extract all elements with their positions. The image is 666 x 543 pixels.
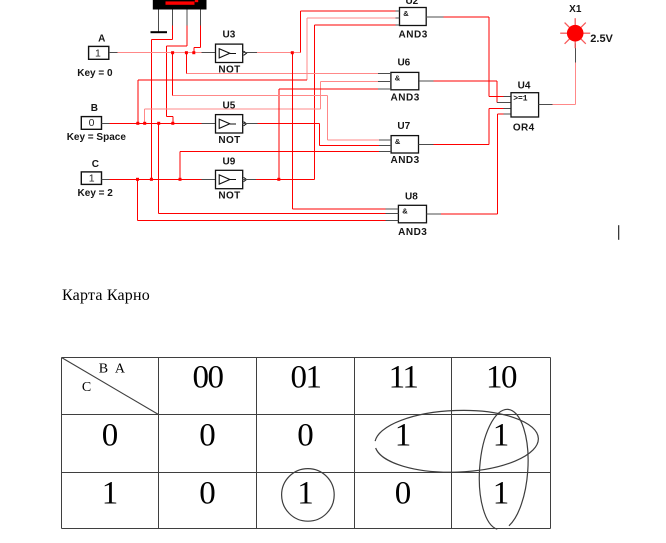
svg-text:Key = 0: Key = 0 xyxy=(77,68,113,79)
svg-text:0: 0 xyxy=(102,418,119,454)
svg-text:1: 1 xyxy=(493,418,510,454)
svg-text:U9: U9 xyxy=(223,156,236,167)
svg-text:&: & xyxy=(395,74,401,83)
svg-text:AND3: AND3 xyxy=(391,92,420,103)
svg-text:10: 10 xyxy=(486,360,517,396)
svg-text:00: 00 xyxy=(193,360,224,396)
svg-text:U6: U6 xyxy=(397,58,410,69)
svg-text:B: B xyxy=(91,103,98,114)
svg-text:&: & xyxy=(395,137,401,146)
svg-text:Key = Space: Key = Space xyxy=(67,132,127,143)
svg-text:C: C xyxy=(92,159,99,170)
svg-text:A: A xyxy=(98,33,105,44)
svg-text:NOT: NOT xyxy=(218,191,240,202)
svg-text:&: & xyxy=(402,207,408,216)
svg-text:AND3: AND3 xyxy=(390,155,419,166)
svg-text:U4: U4 xyxy=(518,80,531,91)
svg-text:1: 1 xyxy=(95,47,101,59)
svg-text:0: 0 xyxy=(395,475,412,511)
svg-text:0: 0 xyxy=(89,117,95,129)
svg-text:>=1: >=1 xyxy=(513,95,528,104)
svg-text:1: 1 xyxy=(89,172,95,184)
svg-text:U8: U8 xyxy=(405,192,418,203)
svg-text:U7: U7 xyxy=(397,121,410,132)
svg-text:C: C xyxy=(82,380,91,395)
svg-text:2.5V: 2.5V xyxy=(590,33,613,45)
svg-text:X1: X1 xyxy=(569,4,582,15)
svg-text:NOT: NOT xyxy=(218,135,240,146)
svg-text:AND3: AND3 xyxy=(399,30,428,41)
svg-text:01: 01 xyxy=(291,360,321,396)
svg-text:0: 0 xyxy=(199,475,216,511)
svg-text:Key = 2: Key = 2 xyxy=(78,188,114,199)
svg-text:Карта Карно: Карта Карно xyxy=(62,287,150,304)
svg-text:0: 0 xyxy=(297,418,314,454)
svg-text:11: 11 xyxy=(389,360,418,396)
svg-text:AND3: AND3 xyxy=(398,227,427,238)
svg-text:OR4: OR4 xyxy=(513,123,535,134)
svg-text:0: 0 xyxy=(199,418,216,454)
svg-text:1: 1 xyxy=(395,418,412,454)
svg-text:U3: U3 xyxy=(223,30,236,41)
svg-text:B A: B A xyxy=(99,362,127,377)
svg-text:&: & xyxy=(403,9,409,18)
svg-text:U2: U2 xyxy=(405,0,418,7)
svg-text:1: 1 xyxy=(493,475,510,511)
svg-text:1: 1 xyxy=(102,475,119,511)
svg-text:1: 1 xyxy=(297,475,314,511)
svg-text:U5: U5 xyxy=(223,100,236,111)
